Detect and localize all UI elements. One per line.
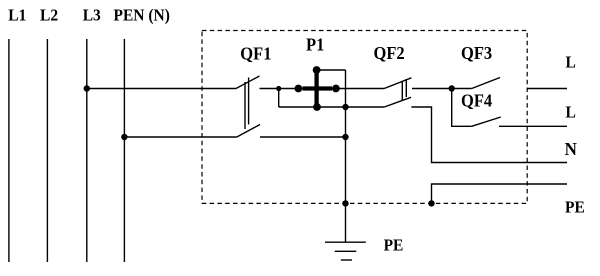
- svg-text:PE: PE: [565, 197, 585, 217]
- svg-text:L3: L3: [83, 5, 101, 25]
- svg-text:QF1: QF1: [240, 44, 271, 64]
- svg-text:QF3: QF3: [461, 43, 492, 63]
- svg-text:QF4: QF4: [461, 91, 492, 111]
- svg-text:N: N: [565, 140, 578, 159]
- svg-text:L: L: [566, 102, 576, 122]
- svg-text:L1: L1: [8, 5, 26, 25]
- svg-text:QF2: QF2: [374, 43, 405, 63]
- svg-text:PE: PE: [384, 235, 404, 255]
- svg-text:PEN (N): PEN (N): [114, 5, 170, 25]
- svg-text:L2: L2: [40, 5, 58, 25]
- svg-text:L: L: [566, 52, 576, 72]
- svg-text:P1: P1: [306, 35, 324, 55]
